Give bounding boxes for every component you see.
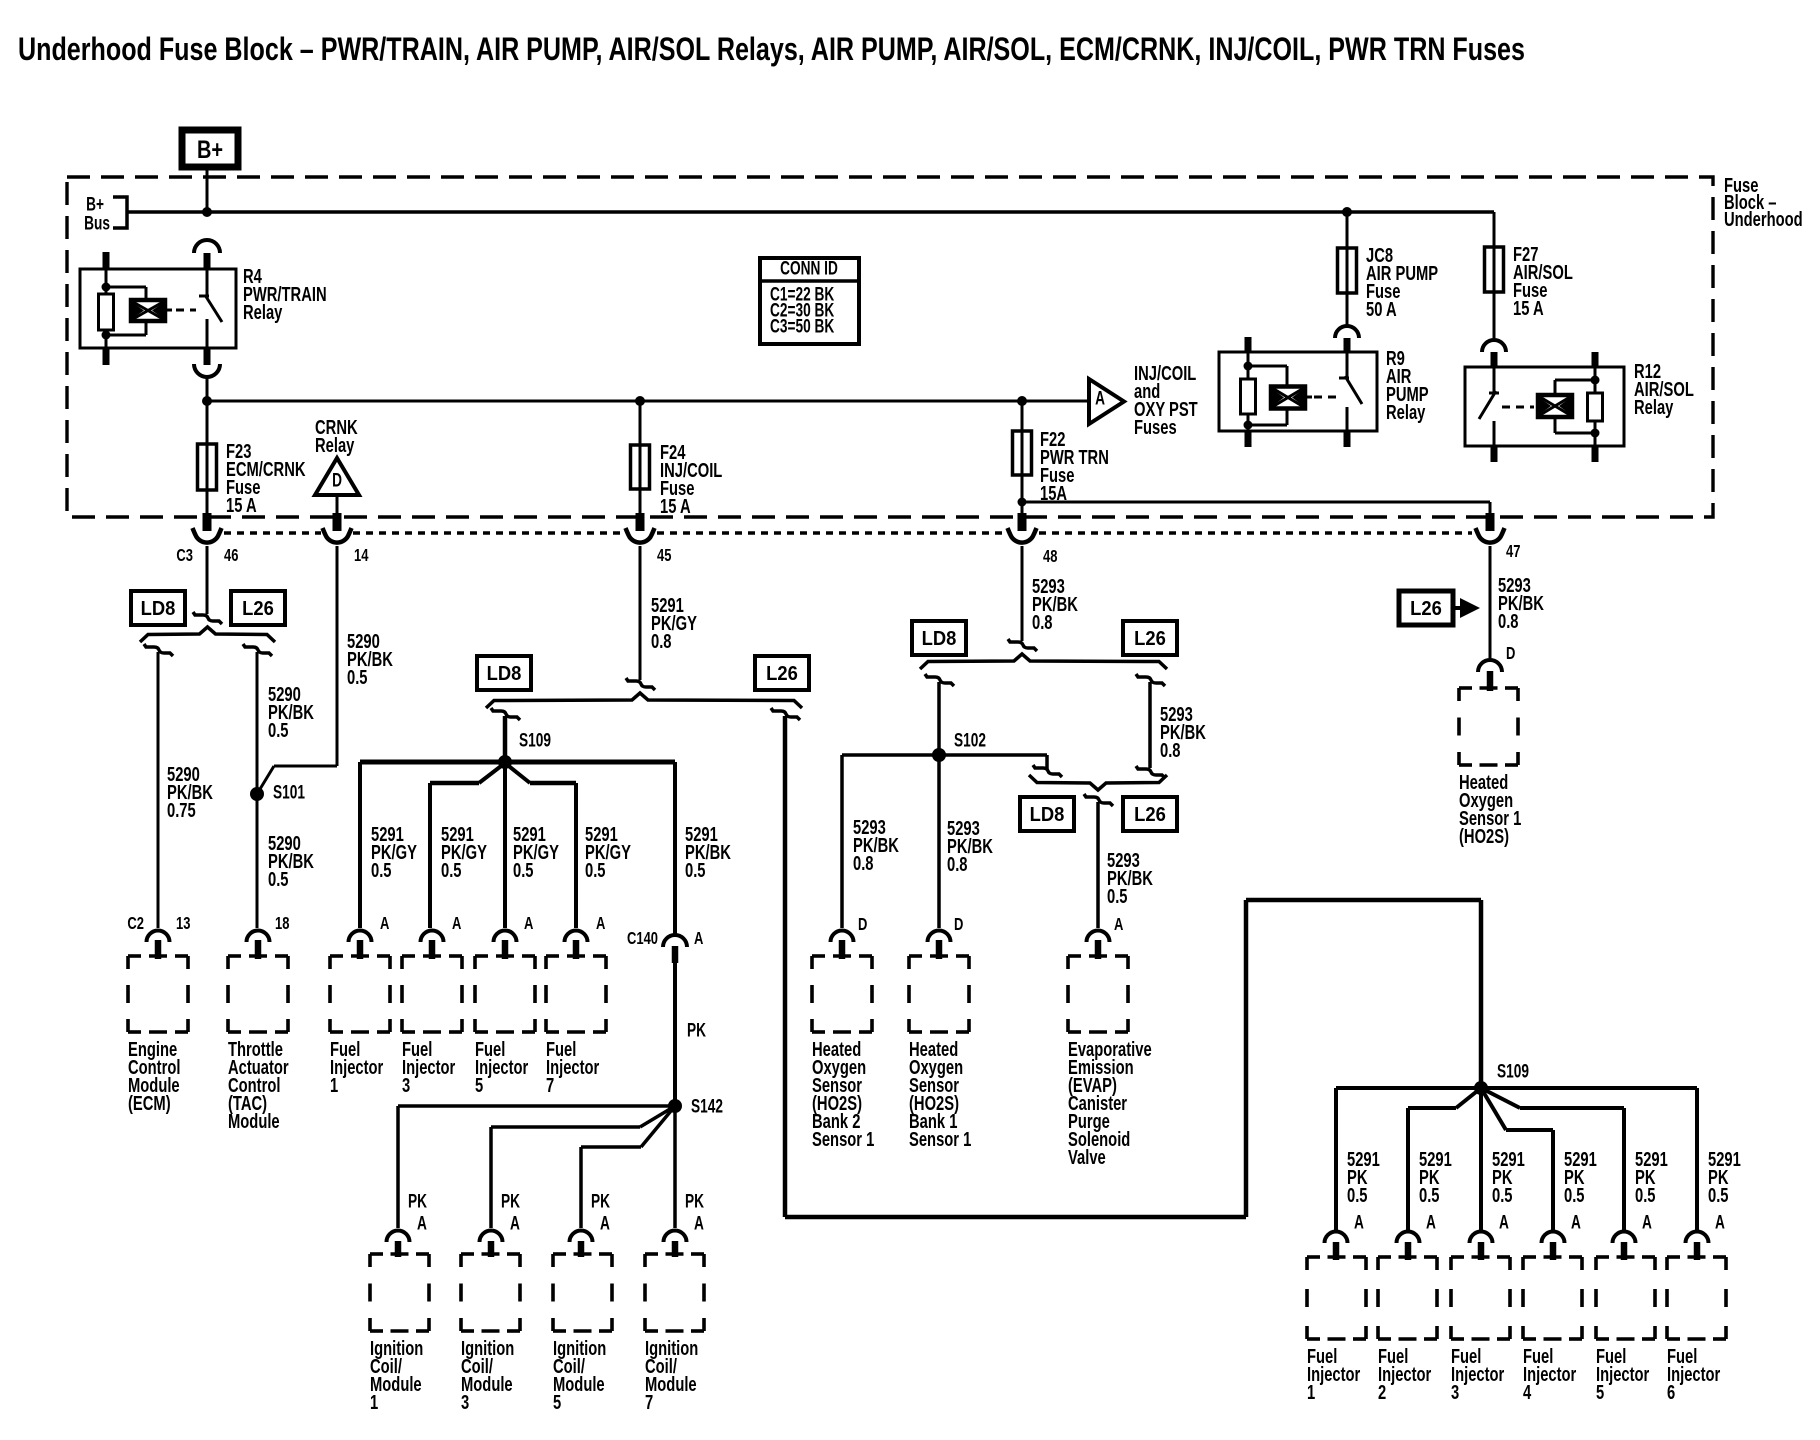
svg-text:PK: PK <box>408 1190 427 1212</box>
svg-text:Sensor 1: Sensor 1 <box>909 1127 971 1150</box>
svg-text:15 A: 15 A <box>1513 296 1544 319</box>
svg-text:5: 5 <box>553 1390 561 1413</box>
svg-text:46: 46 <box>224 546 239 566</box>
svg-text:0.8: 0.8 <box>1160 738 1181 761</box>
svg-text:A: A <box>524 914 533 934</box>
svg-text:0.5: 0.5 <box>347 665 368 688</box>
svg-text:15 A: 15 A <box>660 494 691 517</box>
svg-text:CONN ID: CONN ID <box>780 257 838 279</box>
svg-text:4: 4 <box>1523 1380 1531 1403</box>
svg-text:A: A <box>600 1212 610 1234</box>
svg-text:Fuses: Fuses <box>1134 415 1177 438</box>
svg-text:C3=50 BK: C3=50 BK <box>770 315 834 337</box>
svg-text:C3: C3 <box>176 546 193 566</box>
svg-text:A: A <box>1499 1211 1509 1233</box>
svg-text:5: 5 <box>1596 1380 1604 1403</box>
svg-text:0.8: 0.8 <box>1498 609 1519 632</box>
svg-text:A: A <box>1642 1211 1652 1233</box>
svg-text:50 A: 50 A <box>1366 297 1397 320</box>
svg-text:3: 3 <box>461 1390 469 1413</box>
svg-text:LD8: LD8 <box>141 598 176 620</box>
svg-text:0.5: 0.5 <box>268 867 289 890</box>
svg-text:C2: C2 <box>127 914 144 934</box>
svg-text:3: 3 <box>402 1073 410 1096</box>
svg-text:5: 5 <box>475 1073 483 1096</box>
svg-text:Relay: Relay <box>1634 395 1673 418</box>
svg-text:7: 7 <box>645 1390 653 1413</box>
svg-text:A: A <box>1114 915 1123 935</box>
svg-text:Valve: Valve <box>1068 1145 1106 1168</box>
svg-text:0.5: 0.5 <box>1635 1183 1656 1206</box>
svg-text:S109: S109 <box>519 729 551 751</box>
svg-text:A: A <box>510 1212 520 1234</box>
svg-text:Bus: Bus <box>84 212 110 234</box>
svg-text:0.5: 0.5 <box>1419 1183 1440 1206</box>
svg-text:C140: C140 <box>627 929 658 949</box>
svg-text:48: 48 <box>1043 547 1058 567</box>
svg-text:S142: S142 <box>691 1095 723 1117</box>
svg-text:0.5: 0.5 <box>1492 1183 1513 1206</box>
svg-text:15 A: 15 A <box>226 493 257 516</box>
svg-text:0.5: 0.5 <box>1564 1183 1585 1206</box>
svg-text:A: A <box>452 914 461 934</box>
svg-text:0.8: 0.8 <box>651 629 672 652</box>
svg-text:Relay: Relay <box>243 300 282 323</box>
svg-text:2: 2 <box>1378 1380 1386 1403</box>
svg-text:L26: L26 <box>766 663 798 685</box>
svg-text:14: 14 <box>354 546 369 566</box>
svg-text:LD8: LD8 <box>487 663 522 685</box>
svg-text:PK: PK <box>687 1019 706 1041</box>
svg-text:A: A <box>380 914 389 934</box>
svg-text:LD8: LD8 <box>922 628 957 650</box>
svg-text:PK: PK <box>501 1190 520 1212</box>
svg-text:Sensor 1: Sensor 1 <box>812 1127 874 1150</box>
svg-text:PK: PK <box>591 1190 610 1212</box>
svg-text:D: D <box>954 915 963 935</box>
svg-text:LD8: LD8 <box>1030 804 1065 826</box>
svg-text:A: A <box>417 1212 427 1234</box>
svg-text:0.8: 0.8 <box>1032 610 1053 633</box>
svg-text:A: A <box>1354 1211 1364 1233</box>
svg-text:18: 18 <box>275 914 290 934</box>
svg-text:Relay: Relay <box>315 433 354 456</box>
svg-text:0.5: 0.5 <box>1107 884 1128 907</box>
svg-text:A: A <box>694 1212 704 1234</box>
svg-text:A: A <box>1571 1211 1581 1233</box>
svg-text:D: D <box>858 915 867 935</box>
svg-text:D: D <box>332 469 342 491</box>
svg-text:A: A <box>1426 1211 1436 1233</box>
svg-text:0.5: 0.5 <box>441 858 462 881</box>
svg-text:0.5: 0.5 <box>1347 1183 1368 1206</box>
svg-text:0.5: 0.5 <box>1708 1183 1729 1206</box>
svg-text:0.5: 0.5 <box>371 858 392 881</box>
svg-text:1: 1 <box>370 1390 378 1413</box>
svg-text:L26: L26 <box>1410 598 1442 620</box>
svg-text:0.8: 0.8 <box>853 851 874 874</box>
svg-text:1: 1 <box>330 1073 338 1096</box>
svg-text:Relay: Relay <box>1386 400 1425 423</box>
svg-text:45: 45 <box>657 546 672 566</box>
svg-text:A: A <box>1095 387 1105 409</box>
svg-text:S102: S102 <box>954 729 986 751</box>
svg-text:A: A <box>596 914 605 934</box>
svg-text:D: D <box>1506 644 1515 664</box>
svg-text:3: 3 <box>1451 1380 1459 1403</box>
svg-text:0.5: 0.5 <box>513 858 534 881</box>
svg-text:S101: S101 <box>273 781 305 803</box>
svg-text:0.75: 0.75 <box>167 798 196 821</box>
svg-text:(HO2S): (HO2S) <box>1459 824 1509 847</box>
svg-text:47: 47 <box>1506 542 1521 562</box>
svg-text:0.5: 0.5 <box>585 858 606 881</box>
svg-text:7: 7 <box>546 1073 554 1096</box>
svg-text:Module: Module <box>228 1109 280 1132</box>
svg-text:1: 1 <box>1307 1380 1315 1403</box>
svg-text:0.5: 0.5 <box>268 718 289 741</box>
svg-text:S109: S109 <box>1497 1060 1529 1082</box>
svg-text:L26: L26 <box>242 598 274 620</box>
svg-text:Underhood: Underhood <box>1724 207 1803 230</box>
svg-text:A: A <box>694 929 703 949</box>
svg-text:A: A <box>1715 1211 1725 1233</box>
svg-text:13: 13 <box>176 914 191 934</box>
svg-text:0.5: 0.5 <box>685 858 706 881</box>
svg-text:6: 6 <box>1667 1380 1675 1403</box>
svg-text:L26: L26 <box>1134 804 1166 826</box>
svg-text:(ECM): (ECM) <box>128 1091 171 1114</box>
svg-text:L26: L26 <box>1134 628 1166 650</box>
svg-text:PK: PK <box>685 1190 704 1212</box>
svg-text:B+: B+ <box>197 136 223 164</box>
svg-text:0.8: 0.8 <box>947 852 968 875</box>
svg-text:Underhood Fuse Block – PWR/TRA: Underhood Fuse Block – PWR/TRAIN, AIR PU… <box>18 32 1525 68</box>
